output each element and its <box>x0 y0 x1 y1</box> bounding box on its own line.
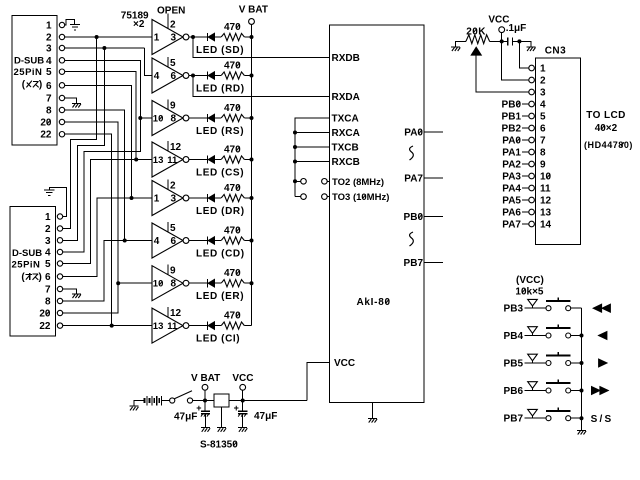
icon play for PB5 <box>599 359 607 367</box>
svg-text:4: 4 <box>154 71 160 82</box>
wire resistor R7 to VBAT rail <box>244 282 251 284</box>
U3 pin label PA0 <box>404 128 423 139</box>
svg-text:LED (CD): LED (CD) <box>196 249 245 260</box>
node PB1 to CN3 pin 5 <box>502 112 529 123</box>
icon fast-forward for PB6 <box>592 387 609 395</box>
svg-text:D-SUB: D-SUB <box>12 248 42 259</box>
svg-text:4: 4 <box>154 236 160 247</box>
svg-text:12: 12 <box>170 308 182 319</box>
J1 pin 7 <box>46 94 65 105</box>
node PA6 to CN3 pin 13 <box>502 208 529 219</box>
CN3 pin 12 <box>529 196 552 207</box>
svg-text:OPEN: OPEN <box>157 6 185 17</box>
wire LED D6 to resistor R6 <box>215 240 222 242</box>
J1 pin 8 <box>46 106 65 117</box>
wire clock RXCA <box>295 132 330 134</box>
wire button common bus <box>581 308 583 430</box>
svg-text:AkI-80: AkI-80 <box>357 297 391 308</box>
CN3 pin 11 <box>529 184 551 195</box>
svg-text:3: 3 <box>46 44 52 55</box>
LED D8 (CI) <box>196 321 240 344</box>
svg-text:1: 1 <box>540 64 546 75</box>
pullup resistor symbol PB5 (VCC triangle) <box>528 354 538 363</box>
svg-text:6: 6 <box>46 81 52 92</box>
J2 pin 2 <box>45 224 63 235</box>
wire gate U1A output to LED <box>189 36 208 38</box>
wire TO2 jumper right <box>327 180 329 182</box>
J1 pin 2 <box>46 33 65 44</box>
wire J1 pin7 to signal ground <box>65 98 77 103</box>
svg-text:S-81350: S-81350 <box>200 439 238 450</box>
ground G1 (J1 pin1 earth) <box>70 24 80 29</box>
pushbutton SW PB7 <box>546 407 571 420</box>
junction bus at PB4 <box>580 334 584 338</box>
CN3 pin 4 <box>529 100 546 111</box>
node PA3 to CN3 pin 10 <box>502 172 529 183</box>
svg-text:470: 470 <box>224 268 241 279</box>
pushbutton SW PB4 <box>546 325 571 338</box>
svg-text:PB4: PB4 <box>504 331 524 342</box>
power symbol VCC top right <box>488 15 509 42</box>
svg-text:10k×5: 10k×5 <box>515 286 544 297</box>
svg-text:5: 5 <box>540 112 546 123</box>
wire TO3 jumper left <box>295 196 301 198</box>
LED D1 (SD) <box>196 33 244 56</box>
jumper JP1 pin TO2 left <box>301 179 307 185</box>
svg-text:14: 14 <box>540 220 552 231</box>
svg-text:LED (DR): LED (DR) <box>196 206 245 217</box>
pushbutton SW PB6 <box>546 380 571 393</box>
J1 pin 3 <box>46 44 65 55</box>
svg-text:D-SUB: D-SUB <box>14 56 44 67</box>
svg-text:7: 7 <box>46 94 52 105</box>
U3 pin stub PA7 <box>424 177 443 179</box>
svg-text:20K: 20K <box>466 27 486 38</box>
ground G9 (C3) <box>238 428 247 432</box>
svg-text:LED (CI): LED (CI) <box>196 334 240 345</box>
junction VBAT rail row CD <box>250 239 254 243</box>
svg-text:PB5: PB5 <box>504 359 524 370</box>
svg-text:1: 1 <box>154 33 160 44</box>
svg-text:470: 470 <box>224 22 241 33</box>
node PB0 to CN3 pin 4 <box>502 100 529 111</box>
svg-text:13: 13 <box>153 155 164 166</box>
wire gate U2C output to LED <box>189 282 208 284</box>
CN3 pin 1 <box>529 64 546 75</box>
svg-text:2: 2 <box>45 224 51 235</box>
wire PB6 to switch <box>525 390 546 392</box>
svg-text:47μF: 47μF <box>254 411 277 422</box>
svg-text:470: 470 <box>224 103 241 114</box>
wire gate U1C output to LED <box>189 117 208 119</box>
wire U3 ground stub <box>372 403 374 419</box>
svg-text:1: 1 <box>46 21 52 32</box>
wire TO2 jumper left <box>295 180 301 182</box>
wire PB4 switch to bus <box>571 335 582 337</box>
ground G2 (J1 pin7) <box>72 103 81 107</box>
junction VBAT rail row RS <box>250 116 254 120</box>
ground G11 (C1) <box>526 47 535 51</box>
wire clock bus TXCA <box>295 118 330 197</box>
svg-text:PB0: PB0 <box>502 100 522 111</box>
wire regulator output to VCC node <box>229 400 307 402</box>
svg-text:PB1: PB1 <box>502 112 522 123</box>
svg-text:8: 8 <box>171 114 177 125</box>
resistor R5 470 <box>221 183 244 202</box>
J2 pin 6 <box>45 272 63 283</box>
wire pot wiper to CN3 pin3 <box>476 55 529 92</box>
wire LED D7 to resistor R7 <box>215 282 222 284</box>
jumper JP2 pin TO3 left <box>301 194 307 200</box>
svg-text:): ) <box>39 272 42 283</box>
wire battery plus to switch <box>162 400 170 402</box>
LED D4 (CS) <box>196 155 244 178</box>
svg-text:2: 2 <box>540 76 546 87</box>
svg-text:LED (RS): LED (RS) <box>196 126 244 137</box>
resistor R4 470 <box>221 144 244 163</box>
svg-text:V BAT: V BAT <box>239 5 268 16</box>
inverter gate U1D 75189 <box>152 141 189 177</box>
wire gate U1B output to LED <box>189 75 208 77</box>
svg-text:×2: ×2 <box>133 19 145 30</box>
svg-text:22: 22 <box>40 130 52 141</box>
U3 pin stub PA0 <box>424 131 443 133</box>
wire TO3 jumper right <box>327 196 329 198</box>
svg-text:20: 20 <box>39 309 51 320</box>
svg-text:22: 22 <box>39 321 51 332</box>
junction net CI at gate row <box>110 324 114 328</box>
wire J2 pin7 to signal ground <box>63 289 77 294</box>
battery BT1 <box>145 396 162 405</box>
ground G6 (battery minus) <box>129 406 138 410</box>
junction VBAT rail row RD <box>250 74 254 78</box>
svg-text:3: 3 <box>45 236 51 247</box>
wire gate U2A output to LED <box>189 197 208 199</box>
svg-text:25PiN: 25PiN <box>14 67 43 78</box>
svg-text:RXCB: RXCB <box>332 157 360 168</box>
svg-text:9: 9 <box>540 160 546 171</box>
connector J1 D-SUB 25PIN female box <box>12 16 57 146</box>
junction net ER at gate row <box>116 281 120 285</box>
U3 pin label TO3 (10MHz) <box>332 192 389 203</box>
junction VBAT node <box>203 399 207 403</box>
node PB2 to CN3 pin 6 <box>502 124 529 135</box>
svg-text:PA3: PA3 <box>502 172 521 183</box>
wire resistor R4 to VBAT rail <box>244 159 251 161</box>
junction VBAT rail row SD <box>250 35 254 39</box>
svg-text:VCC: VCC <box>334 358 355 369</box>
svg-text:TXCA: TXCA <box>332 114 359 125</box>
svg-text:13: 13 <box>540 208 552 219</box>
svg-text:PB3: PB3 <box>504 304 524 315</box>
svg-text:PA6: PA6 <box>502 208 521 219</box>
svg-text:5: 5 <box>170 58 176 69</box>
svg-text:TO2 (8MHz): TO2 (8MHz) <box>332 177 384 188</box>
wire resistor R8 to VBAT rail <box>244 325 251 327</box>
svg-text:10: 10 <box>540 172 552 183</box>
svg-text:5: 5 <box>45 259 51 270</box>
wire net RS pin4: J1.4 down to gate U1C row <box>65 60 141 118</box>
LED D6 (CD) <box>196 236 245 259</box>
svg-text:(VCC): (VCC) <box>516 275 544 286</box>
wire net CI row J2.22 to gate input <box>63 325 152 327</box>
svg-text:PB6: PB6 <box>504 386 524 397</box>
wire LED D5 to resistor R5 <box>215 197 222 199</box>
J1 pin 1 <box>46 21 65 32</box>
J2 pin 8 <box>45 297 63 308</box>
wire net DR row to input and down to J2.6 <box>63 198 152 277</box>
svg-text:V BAT: V BAT <box>191 373 220 384</box>
resistor R6 470 <box>221 225 244 244</box>
svg-text:13: 13 <box>153 321 164 332</box>
svg-text:20: 20 <box>40 118 52 129</box>
svg-text:11: 11 <box>540 184 551 195</box>
inverter gate U1B 75189 <box>152 57 189 93</box>
svg-text:CN3: CN3 <box>545 46 567 57</box>
J2 pin 7 <box>45 285 63 296</box>
wire switch to VBAT node <box>193 400 214 402</box>
connector J2 D-SUB 25PIN male box <box>10 207 56 337</box>
node PA4 to CN3 pin 11 <box>502 184 529 195</box>
CN3 pin 7 <box>529 136 546 147</box>
svg-text:8: 8 <box>45 297 51 308</box>
wire PB6 switch to bus <box>571 390 582 392</box>
svg-text:RXCA: RXCA <box>332 128 360 139</box>
svg-text:3: 3 <box>171 33 177 44</box>
CN3 pin 10 <box>529 172 552 183</box>
label TO LCD 40x2 HD44780 <box>584 110 633 150</box>
svg-text:12: 12 <box>170 142 182 153</box>
wire gate U2D output to LED <box>189 325 208 327</box>
capacitor C3 47uF <box>234 401 278 428</box>
icon rewind for PB3 <box>593 304 610 312</box>
node PA0 to CN3 pin 7 <box>502 136 529 147</box>
wire VCC node down to CN3 pin2 <box>502 41 529 80</box>
power symbol VCC bottom <box>232 373 253 400</box>
wire PB4 to switch <box>525 335 546 337</box>
capacitor C2 47uF <box>174 401 210 428</box>
svg-text:PB7: PB7 <box>504 414 524 425</box>
wire J2 pin1 to earth ground <box>49 187 66 216</box>
pullup resistor symbol PB4 (VCC triangle) <box>528 327 538 336</box>
U3 pin label PB0 <box>404 212 424 223</box>
svg-text:12: 12 <box>540 196 552 207</box>
inverter gate U2C 75189 <box>152 265 189 301</box>
svg-text:4: 4 <box>46 56 52 67</box>
svg-text:3: 3 <box>171 194 177 205</box>
inverter gate U1A 75189 <box>152 14 189 55</box>
CN3 pin 5 <box>529 112 546 123</box>
wire resistor R6 to VBAT rail <box>244 240 251 242</box>
resistor R7 470 <box>221 268 244 287</box>
wire RXDB to AkI-80 <box>193 37 330 58</box>
wire net CD pin8: J1.8 down to gate U2B row <box>65 110 125 241</box>
svg-text:(HD44780): (HD44780) <box>584 140 633 150</box>
junction net DR at gate row <box>130 196 134 200</box>
power symbol V BAT top <box>239 5 268 25</box>
ground G10 (pot low side) <box>451 47 460 51</box>
wire cap node down to CN3 pin1 <box>519 41 528 68</box>
wire net RD to gate U1B input <box>144 48 152 76</box>
junction net RD at tap <box>102 46 106 50</box>
svg-text:8: 8 <box>171 279 177 290</box>
J2 pin 20 <box>39 309 62 320</box>
svg-text:PA4: PA4 <box>502 184 521 195</box>
wire net ER pin20: J1.20 down through gate U2C row to J2.20 <box>63 122 118 313</box>
node PA2 to CN3 pin 9 <box>502 160 529 171</box>
svg-text:PB7: PB7 <box>404 258 424 269</box>
svg-text:.1μF: .1μF <box>506 23 527 34</box>
svg-text:9: 9 <box>170 266 176 277</box>
wire resistor R1 to VBAT rail <box>244 36 251 38</box>
resistor R3 470 <box>221 103 244 122</box>
wire PB7 to switch <box>525 417 546 419</box>
junction clock TO2 <box>293 179 297 183</box>
junction clock RXCA <box>293 131 297 135</box>
CN3 pin 8 <box>529 148 546 159</box>
junction bus at PB6 <box>580 389 584 393</box>
wire cap to ground <box>519 41 531 46</box>
wire resistor R2 to VBAT rail <box>244 75 251 77</box>
junction VCC/cap node <box>500 39 504 43</box>
wire regulator ground stub <box>221 407 223 428</box>
resistor R1 470 <box>221 22 244 41</box>
J1 pin 4 <box>46 56 65 67</box>
jumper JP1 pin TO2 right <box>322 179 328 185</box>
ground G8 (U4) <box>217 428 226 432</box>
wire LED D8 to resistor R8 <box>215 325 222 327</box>
svg-text:1: 1 <box>45 212 51 223</box>
CN3 pin 13 <box>529 208 552 219</box>
CPU module U3 AkI-80 <box>330 25 425 403</box>
power symbol V BAT bottom <box>191 373 220 400</box>
svg-text:PA2: PA2 <box>502 160 521 171</box>
wire resistor R5 to VBAT rail <box>244 197 251 199</box>
junction gate U1B output node RXDA <box>191 74 195 78</box>
svg-text:5: 5 <box>46 67 52 78</box>
wire pot left to ground <box>456 41 466 46</box>
svg-text:VCC: VCC <box>232 373 253 384</box>
svg-text:8: 8 <box>540 148 546 159</box>
continuation squiggle PB0-PB7 <box>410 232 414 246</box>
wire gate U1D output to LED <box>189 159 208 161</box>
svg-text:470: 470 <box>224 225 241 236</box>
wire LED D2 to resistor R2 <box>215 75 222 77</box>
junction cap right node <box>517 39 521 43</box>
svg-text:470: 470 <box>224 183 241 194</box>
junction clock RXCB <box>293 160 297 164</box>
svg-text:PA0: PA0 <box>502 136 521 147</box>
node PA5 to CN3 pin 12 <box>502 196 529 207</box>
node PA7 to CN3 pin 14 <box>502 220 529 231</box>
junction bus at PB5 <box>580 361 584 365</box>
IC label 75189 x2 <box>121 11 149 31</box>
svg-text:TO3 (10MHz): TO3 (10MHz) <box>332 192 389 203</box>
svg-text:5: 5 <box>170 223 176 234</box>
pullup resistor symbol PB6 (VCC triangle) <box>528 382 538 391</box>
icon back for PB4 <box>599 332 607 340</box>
wire PB7 switch to bus <box>571 417 582 419</box>
svg-text:7: 7 <box>45 285 51 296</box>
J2 pin 5 <box>45 259 63 270</box>
junction bus at PB7 <box>580 416 584 420</box>
CN3 pin 14 <box>529 220 552 231</box>
CN3 pin 6 <box>529 124 546 135</box>
capacitor C1 0.1uF <box>502 23 527 46</box>
J2 pin 4 <box>45 248 63 259</box>
svg-text:3: 3 <box>540 88 546 99</box>
svg-text:6: 6 <box>540 124 546 135</box>
svg-text:TXCB: TXCB <box>332 143 359 154</box>
wire VBAT rail vertical <box>251 24 253 325</box>
wire PB5 to switch <box>525 362 546 364</box>
svg-text:47μF: 47μF <box>174 412 197 423</box>
svg-text:6: 6 <box>171 236 177 247</box>
junction gate U1A output node RXDB <box>191 35 195 39</box>
svg-text:4: 4 <box>540 100 546 111</box>
U3 pin stub PB7 <box>424 262 443 264</box>
U3 pin stub PB0 <box>424 216 443 218</box>
inverter gate U2D 75189 <box>152 307 189 343</box>
svg-text:PB0: PB0 <box>404 212 424 223</box>
wire clock TXCB <box>295 146 330 148</box>
inverter gate U2A 75189 <box>152 180 189 216</box>
inverter gate U2B 75189 <box>152 222 189 258</box>
svg-text:LED (CS): LED (CS) <box>196 168 244 179</box>
svg-text:+: + <box>234 403 239 413</box>
inverter gate U1C 75189 <box>152 100 189 136</box>
ground G4 (J2 pin7) <box>72 294 81 298</box>
resistor R2 470 <box>221 60 244 79</box>
svg-text:6: 6 <box>171 71 177 82</box>
resistor R8 470 <box>221 310 244 329</box>
svg-text:PB2: PB2 <box>502 124 522 135</box>
wire net RS down to J2.4 <box>63 118 141 252</box>
svg-text:S/S: S/S <box>591 414 614 425</box>
wire PB3 to switch <box>525 307 546 309</box>
svg-text:2: 2 <box>170 20 176 31</box>
svg-text:6: 6 <box>45 272 51 283</box>
svg-text:10: 10 <box>153 114 164 125</box>
wire J1 pin1 to chassis ground <box>65 20 75 26</box>
svg-text:PA0: PA0 <box>404 128 423 139</box>
svg-text:40×2: 40×2 <box>595 123 618 134</box>
ground G5 (U3) <box>368 418 377 422</box>
wire LED D1 to resistor R1 <box>215 36 222 38</box>
junction VCC node <box>241 399 245 403</box>
wire net RD pin3: J1.3 across <box>65 47 145 49</box>
svg-text:1: 1 <box>154 194 160 205</box>
svg-text:TO LCD: TO LCD <box>586 110 625 121</box>
wire gate U2B output to LED <box>189 240 208 242</box>
svg-text:RXDB: RXDB <box>332 53 360 64</box>
LED D7 (ER) <box>196 279 244 302</box>
J2 pin 22 <box>39 321 62 332</box>
wire net RD tap down to J2.3 <box>63 48 105 240</box>
junction VBAT rail row CS <box>250 158 254 162</box>
potentiometer VR1 20k <box>466 27 490 56</box>
svg-text:25PiN: 25PiN <box>12 259 41 270</box>
wire net CS pin5: J1.5 down to gate U1D row <box>65 72 137 160</box>
J1 pin 5 <box>46 67 65 78</box>
wire clock RXCB <box>295 161 330 163</box>
J1 pin 6 <box>46 81 65 92</box>
wire PB5 switch to bus <box>571 362 582 364</box>
LED D3 (RS) <box>196 114 244 137</box>
junction net RS at gate row <box>138 116 142 120</box>
switch SW1 power <box>170 391 193 403</box>
wire resistor R3 to VBAT rail <box>244 117 251 119</box>
